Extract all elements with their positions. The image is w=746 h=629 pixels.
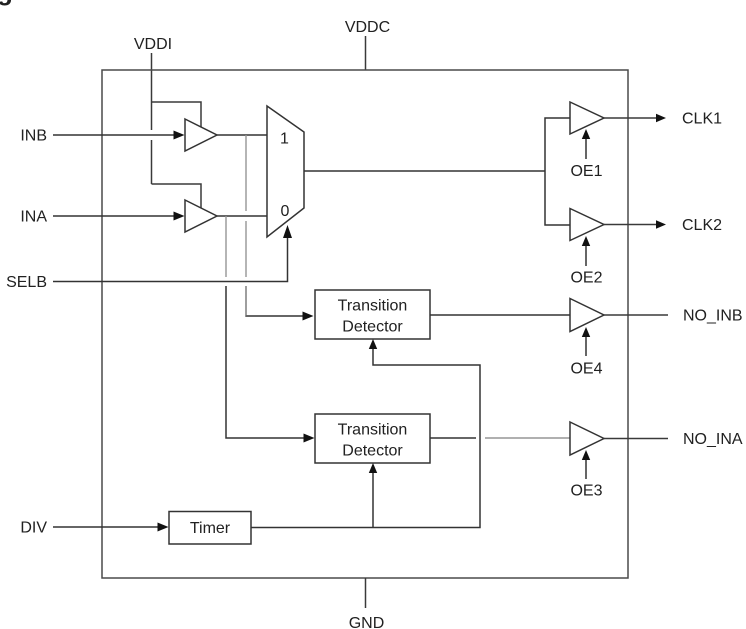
output buffer NO_INA — [570, 422, 604, 455]
VDDI rail vertical (gap at INB wire crossover) — [151, 102, 153, 130]
wire TD2 output — [430, 437, 476, 439]
svg-text:VDDI: VDDI — [134, 36, 172, 53]
svg-text:Timer: Timer — [190, 520, 231, 537]
svg-text:Transition: Transition — [338, 422, 408, 439]
INB input wire — [53, 134, 176, 136]
svg-text:GND: GND — [349, 615, 385, 629]
wire timer output to TD1 bottom — [251, 343, 480, 528]
wire INB buffer to mux input 1 — [217, 134, 267, 136]
OE4 control — [585, 334, 587, 356]
OE3 control — [585, 457, 587, 479]
OE2 control — [585, 243, 587, 266]
wire timer to TD2 bottom — [372, 467, 374, 528]
wire NO_INA output — [604, 438, 668, 440]
svg-text:VDDC: VDDC — [345, 19, 390, 36]
svg-text:0: 0 — [281, 203, 290, 220]
svg-text:OE3: OE3 — [570, 483, 602, 500]
svg-text:CLK1: CLK1 — [682, 111, 722, 128]
GND pin wire — [365, 578, 367, 608]
svg-text:Detector: Detector — [342, 319, 403, 336]
svg-text:OE2: OE2 — [570, 270, 602, 287]
VDDC pin wire — [365, 36, 367, 70]
svg-text:NO_INB: NO_INB — [683, 308, 743, 325]
svg-text:Transition: Transition — [338, 298, 408, 315]
svg-text:INB: INB — [20, 128, 47, 145]
transition detector TD2 — [315, 414, 430, 463]
chip outline box — [102, 70, 628, 578]
wire TD2 output after crossover gap — [485, 437, 570, 439]
svg-text:OE1: OE1 — [570, 163, 602, 180]
output buffer CLK1 — [570, 102, 604, 134]
DIV input wire — [53, 526, 160, 528]
VDDI rail to INA buffer — [152, 184, 202, 208]
VDDI rail to INB buffer — [152, 102, 202, 127]
svg-text:g: g — [0, 0, 13, 6]
svg-text:NO_INA: NO_INA — [683, 431, 743, 448]
wire TD1 output to NO_INB buffer — [430, 314, 570, 316]
wire INA buffer to mux input 0 — [217, 215, 267, 217]
wire INA tap down to TD2 (gap at SELB crossover) — [225, 216, 227, 277]
svg-text:Detector: Detector — [342, 443, 403, 460]
svg-text:CLK2: CLK2 — [682, 217, 722, 234]
input buffer INA — [185, 200, 217, 232]
OE1 control — [585, 136, 587, 159]
output buffer NO_INB — [570, 299, 604, 332]
wire mux output — [304, 170, 545, 172]
clock distribution wire — [545, 118, 570, 225]
input buffer INB — [185, 119, 217, 151]
SELB wire — [53, 237, 288, 282]
wire CLK2 output — [604, 224, 658, 226]
transition detector TD1 — [315, 290, 430, 339]
svg-text:SELB: SELB — [6, 274, 47, 291]
svg-text:OE4: OE4 — [570, 361, 602, 378]
wire CLK1 output — [604, 117, 658, 119]
mux U1 — [267, 106, 304, 237]
svg-text:1: 1 — [280, 131, 289, 148]
VDDI pin wire — [151, 53, 153, 102]
wire NO_INB output — [604, 314, 668, 316]
svg-text:INA: INA — [20, 209, 47, 226]
output buffer CLK2 — [570, 209, 604, 241]
INA input wire — [53, 215, 176, 217]
svg-text:DIV: DIV — [20, 520, 47, 537]
timer T1 — [169, 512, 251, 545]
wire INB tap down to TD1 (gaps at INA wire and SELB crossovers) — [245, 135, 247, 211]
